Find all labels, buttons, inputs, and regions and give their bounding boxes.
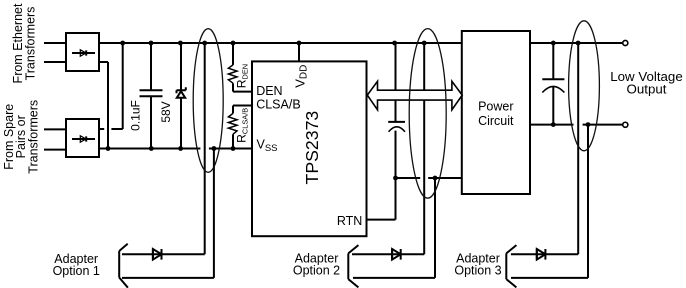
svg-text:Circuit: Circuit: [478, 114, 514, 128]
svg-text:58V: 58V: [159, 101, 173, 122]
svg-text:Power: Power: [478, 100, 513, 114]
svg-text:TPS2373: TPS2373: [302, 111, 322, 185]
svg-text:Option 2: Option 2: [293, 264, 340, 278]
svg-text:Output: Output: [627, 81, 667, 96]
svg-text:DEN: DEN: [256, 84, 282, 98]
svg-text:Transformers: Transformers: [27, 100, 41, 174]
svg-text:CLSA/B: CLSA/B: [256, 98, 300, 112]
svg-text:Transformers: Transformers: [24, 7, 38, 81]
svg-text:Option 1: Option 1: [53, 264, 100, 278]
svg-text:RTN: RTN: [337, 214, 362, 228]
svg-text:0.1uF: 0.1uF: [129, 100, 143, 131]
svg-text:Option 3: Option 3: [454, 264, 501, 278]
